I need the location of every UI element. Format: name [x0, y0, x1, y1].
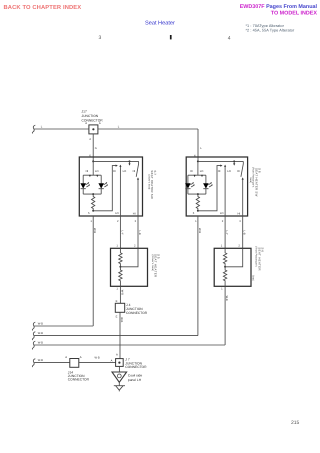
svg-text:(Driver’s Seat): (Driver’s Seat) — [147, 175, 150, 190]
svg-text:W-B: W-B — [38, 342, 43, 345]
svg-text:A: A — [80, 356, 82, 359]
stub+arrow down from top bus dot (S8) — [233, 161, 235, 163]
wire: triangle to earth symbol — [118, 382, 120, 385]
node: dot on S7 top bus — [129, 160, 131, 162]
wire: HI contact to pin 3 (S7) — [137, 179, 139, 216]
svg-text:W-B: W-B — [120, 290, 123, 295]
svg-text:Seat): Seat) — [252, 275, 255, 281]
wire: J17 to S7 pin 6 — [92, 134, 94, 162]
svg-text:3: 3 — [99, 35, 102, 41]
svg-text:W-B: W-B — [120, 317, 123, 322]
stub+arrow down from top bus dot (S7) — [129, 161, 131, 163]
svg-text:A: A — [111, 359, 113, 362]
svg-text:(Front Passenger’s: (Front Passenger’s — [254, 246, 257, 267]
wire: ILL return S8 — [198, 166, 221, 211]
svg-text:LO: LO — [220, 212, 224, 215]
arrow up (LO contact S7) — [119, 165, 121, 167]
node: LED join dot S8 — [197, 193, 199, 195]
wire: LO contact to pin 2 (S8) — [224, 166, 226, 216]
arrow down (LO ill branch) — [96, 175, 98, 177]
wire: S7 pin2 to S5 pin1 — [119, 216, 121, 248]
arrow down (HI ill branch S8) — [194, 175, 196, 177]
wire-break brace line3 — [32, 341, 35, 349]
svg-text:(Driver’s Seat): (Driver’s Seat) — [151, 255, 154, 272]
svg-text:HI: HI — [218, 170, 221, 173]
node: heater mid dot S5 — [119, 266, 121, 268]
wire-break brace line2 — [32, 332, 35, 340]
svg-text:CONNECTOR: CONNECTOR — [68, 377, 90, 381]
svg-text:HI: HI — [133, 170, 136, 173]
svg-text:A: A — [99, 122, 101, 125]
svg-text:Seat): Seat) — [249, 177, 252, 183]
component box S8 — [186, 157, 247, 216]
svg-text:EWD307F Pages From Manual: EWD307F Pages From Manual — [240, 4, 318, 10]
wire: stub to LO indicator LED — [100, 175, 102, 183]
arrow down (HI ill branch) — [89, 175, 91, 177]
wire: corner drop to S8 pin 4 — [197, 129, 199, 161]
svg-text:L-B: L-B — [138, 231, 141, 235]
svg-text:W-B: W-B — [38, 323, 43, 326]
wire-break brace, ILL feed line left end — [32, 125, 35, 133]
svg-text:215: 215 — [291, 420, 300, 426]
svg-text:L-Y: L-Y — [120, 231, 123, 235]
wire: ILL feed line (L) from brace to right corner — [34, 128, 198, 130]
label S 7 SEAT HEATER SW (Driver's Seat) — [147, 170, 157, 199]
ground point triangle IQ — [112, 372, 127, 382]
wire: LED join bar S7 — [83, 193, 101, 195]
LED HI indicator (S7) — [80, 182, 90, 194]
wire-break brace line1 — [32, 322, 35, 330]
svg-text:Cowl side: Cowl side — [128, 373, 142, 377]
svg-text:TO MODEL INDEX: TO MODEL INDEX — [271, 11, 318, 17]
svg-text:LO: LO — [95, 170, 99, 173]
arrow right (ILL return S7) — [116, 165, 118, 167]
svg-text:L-Y: L-Y — [225, 231, 228, 235]
wire: S8 pin3 to S6 pin2 — [242, 216, 244, 248]
svg-text:W-B: W-B — [95, 357, 100, 360]
svg-text:CONNECTOR: CONNECTOR — [82, 118, 104, 122]
label J 7 JUNCTION CONNECTOR — [125, 357, 147, 369]
label J17 JUNCTION CONNECTOR — [82, 110, 104, 123]
heater element upper (S6) — [223, 248, 226, 266]
svg-text:HI: HI — [133, 212, 136, 215]
svg-text:G: G — [95, 147, 97, 150]
svg-text:*1 : 70AType Alterator: *1 : 70AType Alterator — [246, 24, 285, 28]
resistor (S7 illumination) — [92, 194, 95, 211]
earth / body ground symbol — [114, 386, 125, 392]
node: dot on S8 top bus — [233, 160, 235, 162]
svg-text:LO: LO — [123, 170, 127, 173]
wire: S6 pin2 branch — [225, 248, 243, 266]
svg-text:W-B: W-B — [198, 228, 201, 233]
node: resistor bottom dot S7 — [92, 210, 94, 212]
wire: stub to LO indicator LED S8 — [205, 175, 207, 183]
svg-text:W-B: W-B — [38, 332, 43, 335]
svg-text:A: A — [85, 122, 87, 125]
label J14 JUNCTION CONNECTOR — [68, 371, 90, 382]
wire: S8 pin2 to S6 pin1 — [224, 216, 226, 248]
svg-text:SEAT HEATER SW: SEAT HEATER SW — [150, 170, 154, 199]
svg-text:J17: J17 — [82, 110, 87, 114]
component box S6 — [214, 248, 251, 286]
svg-text:E: E — [116, 315, 118, 318]
wire: LED join bar S8 — [188, 193, 206, 195]
ground line4 (W-B) from brace to J14 — [34, 362, 70, 364]
svg-text:*2 : 45A, 55A Type Alterator: *2 : 45A, 55A Type Alterator — [246, 29, 295, 33]
svg-text:4: 4 — [228, 35, 231, 41]
ground line3 (W-B) from brace to S6 wire — [34, 344, 225, 346]
LED LO indicator (S7) — [98, 182, 108, 194]
component box S7 — [79, 157, 142, 216]
arrow right (ILL return S8) — [220, 165, 222, 167]
svg-text:HI: HI — [86, 170, 89, 173]
wire: S7 pin1 W-B down to line1 — [92, 216, 94, 326]
wire: S5 pin1 W-B down to J4 — [119, 286, 121, 303]
svg-text:HI: HI — [113, 170, 116, 173]
resistor (S8 illumination) — [196, 194, 199, 211]
wire: S7 pin3 to S5 pin2 — [137, 216, 139, 248]
wire: S8 pin1 W-B down to line2 — [197, 216, 199, 336]
wire: LO contact to pin 2 (S7) — [119, 166, 121, 216]
svg-text:panel LH: panel LH — [128, 378, 142, 382]
ground line4 (W-B) J14 to J7 — [79, 362, 116, 364]
svg-text:LO: LO — [200, 170, 204, 173]
wire: HI contact to pin 3 (S8) — [242, 179, 244, 216]
arrow up (HI contact S8) — [242, 177, 244, 179]
wire: S5 pin2 branch — [120, 248, 138, 266]
wire: J7 to ground point — [118, 366, 120, 372]
node: heater mid dot S6 — [224, 266, 226, 268]
svg-text:HI: HI — [190, 170, 193, 173]
ground line2 (W-B) from brace to S8 pin1 wire — [34, 335, 198, 337]
heater element lower (S5) — [119, 267, 122, 287]
section marker I — [170, 35, 172, 39]
svg-text:CONNECTOR: CONNECTOR — [126, 311, 148, 315]
label S 5 SEAT HEATER (Driver's Seat) — [151, 254, 161, 277]
ground line1 (W-B) from brace to S7 pin1 wire — [34, 325, 93, 327]
node: ILL feed dot inside S8 — [197, 160, 199, 162]
junction connector J4 — [115, 303, 124, 312]
LED LO indicator (S8) — [203, 182, 213, 194]
svg-text:BACK TO CHAPTER INDEX: BACK TO CHAPTER INDEX — [4, 4, 82, 11]
arrow down (LO ill branch S8) — [201, 175, 203, 177]
svg-text:LO: LO — [115, 212, 119, 215]
wire-break brace line4 — [32, 359, 35, 367]
arrow up (HI contact S7) — [137, 177, 139, 179]
svg-text:LO: LO — [227, 170, 231, 173]
label Cowl side panel LH — [128, 373, 142, 382]
svg-text:E: E — [116, 300, 118, 303]
svg-text:W-B: W-B — [38, 359, 43, 362]
svg-text:W-B: W-B — [225, 296, 228, 301]
svg-text:W-B: W-B — [93, 228, 96, 233]
svg-text:L-B: L-B — [243, 231, 246, 235]
svg-text:A: A — [116, 354, 118, 357]
junction connector J14 — [70, 359, 79, 368]
svg-text:A: A — [65, 356, 67, 359]
wire: ILL branch bar S7 — [83, 161, 101, 175]
node: ILL feed dot inside S7 — [92, 160, 94, 162]
wire: S7 top bus — [93, 160, 138, 162]
label S 8 SEAT HEATER SW (Front Passenger's Seat) — [249, 167, 262, 197]
heater element lower (S6) — [223, 267, 226, 287]
switch lever S7 — [136, 161, 138, 176]
wire: S8 top bus — [198, 160, 243, 162]
label J 4 JUNCTION CONNECTOR — [126, 303, 148, 315]
switch lever S8 — [241, 161, 243, 176]
wire: stub to HI indicator LED S8 — [187, 175, 189, 183]
heater element upper (S5) — [119, 248, 122, 266]
LED HI indicator (S8) — [185, 182, 195, 194]
wire: ILL return S7 — [93, 166, 116, 211]
label S 6 SEAT HEATER (Front Passenger's Seat) — [252, 246, 265, 281]
svg-text:Seat Heater: Seat Heater — [145, 20, 175, 26]
wire: ILL branch bar S8 — [188, 161, 206, 175]
junction connector J7 — [116, 359, 124, 367]
component box S5 — [111, 248, 148, 286]
wire: stub to HI indicator LED — [82, 175, 84, 183]
svg-text:CONNECTOR: CONNECTOR — [125, 365, 147, 369]
node: LED join dot S7 — [92, 193, 94, 195]
wire: J4 W-B down to J7 (crosses line2, line3) — [119, 312, 121, 358]
arrow up (LO contact S8) — [224, 165, 226, 167]
junction connector J17 — [89, 125, 98, 134]
node: resistor bottom dot S8 — [197, 210, 199, 212]
wire: S6 pin1 W-B down to line3 — [224, 286, 226, 345]
svg-text:HI: HI — [238, 212, 241, 215]
svg-text:HI: HI — [237, 170, 240, 173]
